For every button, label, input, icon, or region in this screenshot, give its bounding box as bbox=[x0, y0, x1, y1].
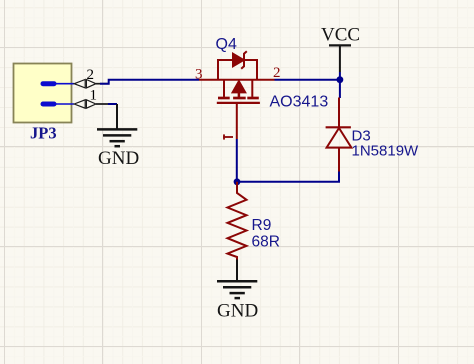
pin 3 lead + main bar + pin 2 lead bbox=[199, 79, 275, 81]
transistor Q4 bbox=[199, 51, 275, 139]
gate bar bbox=[217, 102, 260, 104]
svg-text:JP3: JP3 bbox=[30, 124, 57, 143]
pin number 1 (Q4, rotated) bbox=[223, 134, 233, 139]
wire: D3 bottom to node bbox=[237, 172, 339, 182]
connector JP3 pin 2 bar bbox=[43, 81, 74, 86]
svg-text:Q4: Q4 bbox=[216, 36, 237, 53]
svg-text:AO3413: AO3413 bbox=[270, 94, 329, 111]
svg-text:R9: R9 bbox=[252, 217, 272, 234]
svg-text:1: 1 bbox=[90, 87, 98, 103]
wire: Q4 pin2 to VCC node bbox=[275, 79, 340, 81]
svg-text:2: 2 bbox=[87, 67, 95, 83]
gate lead bbox=[236, 103, 238, 139]
power port VCC bbox=[329, 45, 351, 72]
channel bars bbox=[218, 97, 259, 100]
svg-text:1N5819W: 1N5819W bbox=[352, 143, 420, 160]
wire: JP3 pin1 to GND bbox=[108, 103, 117, 105]
svg-text:GND: GND bbox=[98, 148, 139, 169]
node junction dot bbox=[234, 178, 241, 185]
resistor R9 bbox=[228, 182, 247, 261]
channel verticals bbox=[223, 80, 225, 97]
pin 1 I/O symbol bbox=[74, 100, 112, 108]
body diode loop bbox=[218, 60, 257, 80]
connector JP3 body bbox=[14, 64, 72, 123]
node at VCC junction bbox=[337, 76, 344, 83]
ground GND (left) bbox=[97, 104, 137, 146]
substrate arrow bbox=[233, 81, 246, 92]
svg-text:3: 3 bbox=[195, 67, 203, 83]
pin 2 I/O symbol bbox=[74, 80, 109, 88]
connector JP3 pin 1 bar bbox=[43, 102, 74, 107]
wire: Q4 gate down to node bbox=[236, 139, 238, 182]
svg-text:68R: 68R bbox=[252, 233, 280, 250]
diode D3 bbox=[326, 98, 352, 173]
wire: node down to D3 bbox=[339, 72, 341, 98]
ground GND (bottom) bbox=[217, 260, 257, 299]
wire: JP3 pin2 to Q4 pin3 bbox=[100, 80, 199, 84]
svg-text:GND: GND bbox=[217, 301, 258, 322]
svg-text:VCC: VCC bbox=[321, 24, 360, 45]
